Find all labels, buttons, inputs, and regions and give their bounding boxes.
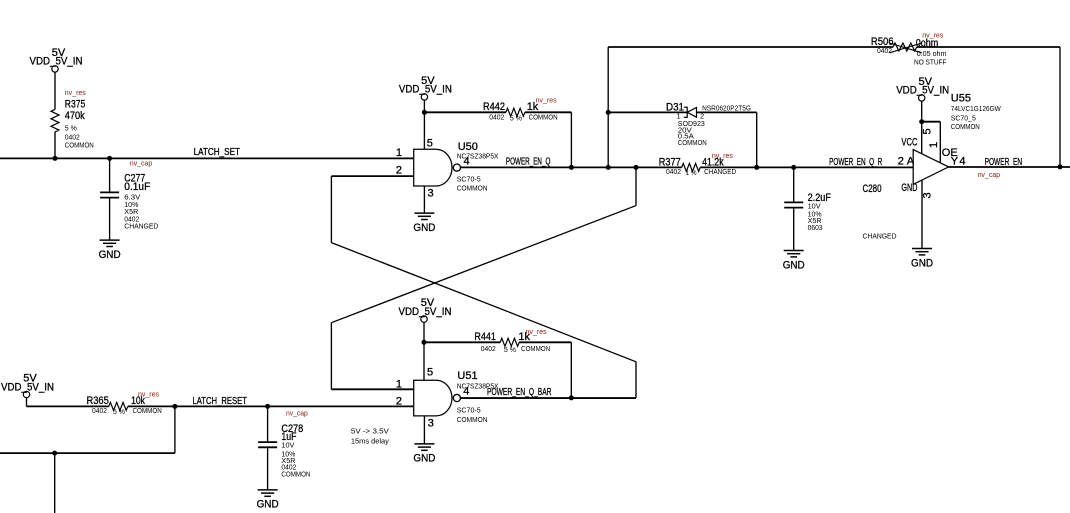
svg-text:D31: D31 bbox=[666, 102, 684, 114]
svg-text:COMMON: COMMON bbox=[529, 113, 558, 122]
svg-text:A: A bbox=[907, 156, 915, 168]
svg-text:nv_res: nv_res bbox=[526, 327, 547, 336]
svg-text:5V -> 3.5V: 5V -> 3.5V bbox=[351, 426, 389, 435]
svg-text:74LVC1G126GW: 74LVC1G126GW bbox=[951, 104, 1002, 113]
svg-text:2: 2 bbox=[396, 395, 402, 407]
svg-text:nv_res: nv_res bbox=[922, 30, 943, 39]
svg-text:LATCH_RESET: LATCH_RESET bbox=[193, 396, 247, 407]
svg-text:3: 3 bbox=[428, 188, 434, 200]
svg-text:COMMON: COMMON bbox=[457, 184, 488, 193]
svg-text:nv_cap: nv_cap bbox=[130, 159, 152, 168]
svg-text:nv_res: nv_res bbox=[138, 390, 159, 399]
svg-text:R441: R441 bbox=[474, 331, 496, 343]
svg-text:GND: GND bbox=[911, 257, 933, 269]
svg-text:1 %: 1 % bbox=[686, 168, 697, 177]
svg-text:POWER_EN_Q: POWER_EN_Q bbox=[506, 157, 551, 168]
svg-text:10V: 10V bbox=[281, 440, 294, 449]
svg-text:1: 1 bbox=[396, 378, 402, 390]
svg-text:0.1uF: 0.1uF bbox=[124, 181, 150, 193]
svg-text:U55: U55 bbox=[951, 93, 971, 105]
svg-text:5 %: 5 % bbox=[510, 114, 522, 123]
svg-text:C280: C280 bbox=[863, 183, 882, 195]
svg-text:2: 2 bbox=[898, 156, 904, 168]
svg-text:15ms delay: 15ms delay bbox=[351, 436, 389, 445]
svg-text:GND: GND bbox=[99, 249, 121, 261]
svg-text:Y: Y bbox=[951, 156, 959, 168]
svg-text:R375: R375 bbox=[65, 99, 86, 111]
svg-text:0402: 0402 bbox=[489, 113, 504, 122]
svg-text:VDD_5V_IN: VDD_5V_IN bbox=[1, 381, 54, 393]
svg-text:POWER_EN_Q_R: POWER_EN_Q_R bbox=[829, 157, 882, 168]
svg-text:SC70-5: SC70-5 bbox=[457, 406, 481, 415]
svg-text:5: 5 bbox=[427, 138, 433, 150]
svg-text:VDD_5V_IN: VDD_5V_IN bbox=[896, 85, 949, 97]
svg-text:COMMON: COMMON bbox=[457, 415, 488, 424]
svg-text:1: 1 bbox=[396, 147, 402, 159]
svg-text:POWER_EN: POWER_EN bbox=[985, 157, 1023, 168]
svg-text:COMMON: COMMON bbox=[521, 344, 550, 353]
svg-text:COMMON: COMMON bbox=[65, 141, 94, 150]
svg-text:POWER_EN_Q_BAR: POWER_EN_Q_BAR bbox=[487, 387, 552, 398]
svg-text:0.05 ohm: 0.05 ohm bbox=[917, 49, 947, 58]
svg-text:GND: GND bbox=[413, 222, 435, 234]
svg-text:GND: GND bbox=[257, 499, 279, 511]
svg-text:VDD_5V_IN: VDD_5V_IN bbox=[399, 84, 452, 96]
svg-text:0402: 0402 bbox=[92, 406, 107, 415]
svg-text:0402: 0402 bbox=[877, 46, 892, 55]
svg-text:R442: R442 bbox=[483, 101, 505, 113]
svg-text:nv_res: nv_res bbox=[536, 96, 557, 105]
svg-text:0402: 0402 bbox=[666, 167, 681, 176]
svg-text:COMMON: COMMON bbox=[951, 122, 980, 131]
svg-text:VDD_5V_IN: VDD_5V_IN bbox=[399, 306, 452, 318]
svg-text:GND: GND bbox=[901, 182, 917, 194]
svg-text:NSR0620P2T5G: NSR0620P2T5G bbox=[702, 103, 751, 112]
svg-text:nv_res: nv_res bbox=[712, 151, 733, 160]
svg-text:1: 1 bbox=[928, 142, 940, 148]
svg-text:GND: GND bbox=[413, 453, 435, 465]
svg-text:3: 3 bbox=[922, 192, 934, 198]
svg-text:COMMON: COMMON bbox=[281, 470, 310, 479]
svg-text:5 %: 5 % bbox=[65, 124, 77, 133]
svg-text:NC7SZ38P5X: NC7SZ38P5X bbox=[457, 151, 499, 160]
svg-text:0402: 0402 bbox=[481, 344, 496, 353]
svg-text:470k: 470k bbox=[65, 110, 85, 122]
svg-text:COMMON: COMMON bbox=[133, 406, 162, 415]
svg-text:NO STUFF: NO STUFF bbox=[914, 58, 947, 67]
svg-text:GND: GND bbox=[783, 259, 805, 271]
svg-text:3: 3 bbox=[428, 417, 434, 429]
svg-text:VDD_5V_IN: VDD_5V_IN bbox=[30, 56, 83, 68]
svg-text:nv_cap: nv_cap bbox=[286, 409, 308, 418]
svg-text:VCC: VCC bbox=[901, 137, 917, 149]
svg-text:U51: U51 bbox=[457, 370, 477, 382]
svg-text:5 %: 5 % bbox=[113, 407, 125, 416]
svg-text:SC70-5: SC70-5 bbox=[457, 175, 481, 184]
svg-text:nv_res: nv_res bbox=[65, 88, 86, 97]
svg-text:nv_cap: nv_cap bbox=[978, 170, 1000, 179]
svg-text:CHANGED: CHANGED bbox=[863, 232, 898, 241]
svg-text:CHANGED: CHANGED bbox=[124, 222, 159, 231]
svg-text:COMMON: COMMON bbox=[678, 138, 707, 147]
svg-text:2: 2 bbox=[396, 165, 402, 177]
svg-text:5: 5 bbox=[427, 367, 433, 379]
svg-text:5: 5 bbox=[921, 128, 933, 134]
svg-text:4: 4 bbox=[959, 156, 965, 168]
svg-text:5 %: 5 % bbox=[504, 345, 516, 354]
svg-text:CHANGED: CHANGED bbox=[704, 167, 737, 176]
svg-text:0603: 0603 bbox=[808, 223, 823, 232]
svg-text:LATCH_SET: LATCH_SET bbox=[194, 147, 240, 158]
